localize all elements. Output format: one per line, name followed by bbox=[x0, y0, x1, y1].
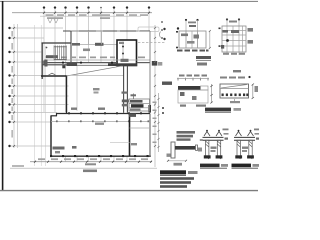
level board dark bbox=[152, 61, 157, 66]
border bottom bbox=[0, 190, 258, 192]
interior vertical x88 bbox=[88, 31, 90, 45]
detail B right text 2 bbox=[248, 40, 254, 44]
detail A left tick dots bbox=[176, 31, 178, 48]
stool E right dim marks bbox=[223, 129, 229, 131]
left axis dots bbox=[8, 27, 10, 147]
faint bottom-left dim text bbox=[12, 165, 24, 167]
detail D top diagonal bbox=[221, 85, 247, 89]
stair bottom rail bbox=[54, 58, 67, 60]
stool E foot 1 bbox=[204, 155, 211, 158]
detail A inner text 1 bbox=[181, 34, 188, 37]
notes line 2 bbox=[160, 181, 191, 184]
stool E foot 2 bbox=[216, 155, 223, 158]
core top marks bbox=[119, 42, 124, 44]
detail C right dim line bbox=[211, 84, 213, 103]
table text row 3 bbox=[130, 109, 141, 111]
detail A caption bbox=[196, 56, 211, 59]
border left bbox=[2, 1, 4, 190]
detail D dim row dot bbox=[248, 76, 250, 78]
table row line 1 bbox=[129, 103, 150, 105]
faint line left of partition bbox=[110, 142, 130, 144]
detail B inner verticals bbox=[233, 26, 243, 52]
stair hatch rails bbox=[53, 46, 55, 61]
detail C lower box bbox=[178, 90, 208, 103]
top wall column dots bbox=[68, 112, 142, 114]
detail C top dim ticks bbox=[178, 78, 208, 81]
detail B right text 1 bbox=[248, 28, 254, 32]
lower wing step horizontal bbox=[51, 115, 58, 117]
grid horizontals group bbox=[10, 28, 69, 146]
detail D bottom tick bbox=[234, 99, 236, 103]
detail B dark mark 1 bbox=[223, 30, 229, 33]
notes line 3 bbox=[160, 185, 187, 188]
grid line axis 3 bbox=[65, 9, 67, 112]
aux vertical c bbox=[44, 46, 46, 166]
flag leader text bbox=[198, 148, 202, 152]
right dim dots mid bbox=[162, 107, 164, 109]
stool F leg 2 bbox=[249, 140, 252, 156]
mid band tick dot 1 bbox=[62, 62, 64, 64]
core inner line bbox=[122, 42, 124, 60]
stair door dot 1 bbox=[46, 47, 48, 49]
detail B outer box bbox=[222, 26, 246, 52]
stool E caption bbox=[200, 164, 220, 168]
hall diagonal bbox=[67, 66, 123, 76]
flag vertical bar bbox=[171, 142, 175, 158]
stool E center text bbox=[211, 147, 217, 149]
mid band dark left bbox=[46, 62, 117, 64]
detail D mid line bbox=[220, 88, 249, 90]
bottom dim tick marks bbox=[34, 161, 152, 163]
grid line axis 6 bbox=[100, 9, 102, 62]
top dimension line 1 bbox=[12, 12, 152, 14]
bottom dimension line 2 bbox=[10, 167, 157, 169]
plan caption smudge bbox=[83, 170, 97, 173]
detail B dark mark 2 bbox=[231, 30, 239, 33]
bottom dimension line 1 bbox=[30, 161, 152, 163]
stool F foot 1 bbox=[235, 155, 242, 158]
detail A axis lines bbox=[185, 20, 187, 48]
bottom stub lines bbox=[65, 156, 67, 162]
walkway arrow mark bbox=[122, 92, 128, 94]
flag horizontal dark bar bbox=[175, 146, 196, 150]
mid band thin line bbox=[44, 59, 150, 61]
lower room text 1 bbox=[53, 147, 65, 150]
right dim vertical bbox=[154, 25, 156, 167]
room text smudge a bbox=[83, 49, 90, 52]
stair room east wall x71 bbox=[70, 31, 72, 66]
stool F right slab tick bbox=[256, 138, 259, 140]
detail D dim row bbox=[220, 77, 245, 79]
top dim row2 smudges bbox=[47, 17, 110, 19]
lower wing bottom wall bbox=[51, 155, 151, 157]
lower wing east wall bbox=[149, 114, 151, 157]
grid line axis 5 bbox=[88, 9, 90, 62]
detail A right dim bbox=[209, 31, 211, 48]
notes title underline bbox=[160, 175, 186, 177]
walkway text 2 bbox=[122, 104, 128, 107]
bottom dim text smudges bbox=[38, 158, 148, 160]
lower room text 5 bbox=[131, 143, 137, 145]
detail A axis dot 2 bbox=[196, 19, 198, 21]
detail A bottom dim row bbox=[177, 50, 209, 52]
grid line axis 9 bbox=[148, 9, 150, 31]
stool F slab lines bbox=[234, 136, 255, 138]
left wing west wall bbox=[41, 43, 43, 80]
left dim text smudges bbox=[11, 31, 13, 138]
stair hatch treads bbox=[56, 46, 66, 61]
detail C top dim line bbox=[177, 78, 209, 80]
left wing top wall bbox=[42, 42, 72, 44]
core dot 2 bbox=[122, 53, 124, 55]
stool F foot 2 bbox=[247, 155, 254, 158]
right inner dim text smudges bbox=[153, 102, 157, 144]
walkway wall west bbox=[123, 66, 125, 113]
lower wing west wall bbox=[50, 116, 52, 157]
flag end cap bbox=[196, 145, 198, 150]
table dark cell bbox=[131, 104, 144, 107]
right balcony dot 1 bbox=[163, 28, 165, 30]
bottom wall column dots bbox=[50, 155, 149, 157]
detail C bottom marks bbox=[180, 105, 186, 107]
stool F center text bbox=[242, 147, 248, 149]
detail B axis dot 2 bbox=[238, 18, 240, 20]
stool E peaks bbox=[204, 132, 210, 137]
lower room text 4 bbox=[95, 123, 104, 125]
stair top rail bbox=[54, 46, 67, 48]
stool E leg 2 hatch bbox=[217, 141, 220, 159]
top dim tick marks bbox=[43, 12, 150, 14]
east wall dark block bbox=[148, 105, 151, 113]
detail B axis dot 1 bbox=[226, 18, 228, 20]
detail A inner verticals bbox=[186, 31, 198, 48]
detail A top text bbox=[188, 22, 196, 24]
detail C right dim ticks bbox=[210, 85, 213, 104]
stool E leg 1 hatch bbox=[206, 141, 209, 159]
stool E apex dots bbox=[206, 130, 208, 132]
detail B left tick dots bbox=[219, 28, 221, 47]
table row line 2 bbox=[129, 107, 150, 109]
interior partition blob 2 bbox=[95, 43, 104, 46]
detail C bar light extension bbox=[201, 86, 209, 90]
table below text bbox=[129, 114, 136, 117]
band fuse over walkway head bbox=[108, 63, 137, 66]
walkway wall east bbox=[126, 66, 128, 113]
hall text smudge 2 bbox=[94, 92, 99, 94]
lower wing top wall bbox=[57, 113, 151, 115]
marks above lower wing wall bbox=[71, 108, 77, 110]
flag side text bbox=[167, 154, 171, 157]
right inner dim ticks bbox=[158, 98, 160, 148]
stool F leg 2 hatch bbox=[249, 141, 252, 159]
detail D right text bbox=[255, 86, 259, 92]
detail B dark mark 3 bbox=[221, 45, 224, 49]
mid band tick dot 3 bbox=[111, 62, 113, 64]
upper wing top wall dark segments bbox=[63, 30, 150, 32]
walkway text 1 bbox=[122, 100, 129, 103]
upper wing east wall bbox=[149, 31, 151, 113]
lower room text 2 bbox=[55, 151, 60, 153]
table box bbox=[129, 99, 150, 111]
detail B inner horizontals bbox=[222, 31, 246, 47]
lower room text 3 bbox=[72, 146, 77, 149]
detail A box bbox=[179, 31, 206, 48]
detail B center dot bbox=[226, 39, 229, 42]
detail A inner text 2 bbox=[194, 35, 200, 39]
detail D caption bbox=[205, 108, 231, 112]
right column dots small bbox=[161, 21, 163, 39]
hall corner blob bbox=[62, 65, 65, 68]
hall eave line bbox=[67, 74, 124, 76]
detail B bottom dim row bbox=[223, 53, 245, 55]
right paren mark bbox=[160, 32, 161, 38]
flag text block bbox=[177, 131, 196, 141]
detail C inner mark 2 bbox=[192, 96, 197, 100]
grid line axis 1 bbox=[43, 9, 45, 112]
detail A axis dot 1 bbox=[185, 19, 187, 21]
detail C dark bar bbox=[178, 86, 201, 90]
right dim ticks on x155 bbox=[154, 27, 156, 147]
partition side line bbox=[130, 127, 151, 129]
detail C inner mark 1 bbox=[180, 92, 185, 96]
stool E right slab tick bbox=[225, 138, 229, 140]
level board light bbox=[158, 62, 163, 66]
left dim line 1 bbox=[13, 24, 15, 148]
stool F caption dark bbox=[232, 164, 252, 168]
core bottom blob bbox=[121, 59, 129, 62]
level mark blob bbox=[67, 62, 78, 66]
mid band dark right bbox=[137, 62, 151, 64]
mid band tick dot 2 bbox=[80, 62, 82, 64]
table text row 1 bbox=[130, 100, 143, 103]
stool E leg 1 bbox=[206, 140, 209, 156]
stair door dot 2 bbox=[46, 56, 48, 58]
top dim text smudges bbox=[46, 14, 149, 16]
detail D main rect bbox=[220, 84, 249, 98]
notes line 1 bbox=[160, 177, 194, 180]
lower wing step vertical bbox=[56, 113, 58, 116]
stool E slab lines bbox=[203, 136, 224, 138]
interior wall y44 bbox=[71, 44, 117, 46]
mid band text smudge row bbox=[45, 55, 59, 66]
detail D bottom text bbox=[230, 101, 240, 103]
core shaft rect bbox=[117, 40, 137, 66]
door arrow mark bbox=[49, 73, 56, 75]
entrance door blob bbox=[43, 61, 47, 65]
stool E leg 2 bbox=[217, 140, 220, 156]
detail D rebar dash row bbox=[222, 94, 249, 97]
stool F leg 1 bbox=[237, 140, 240, 156]
interior vertical x101 bbox=[101, 31, 103, 45]
detail D right dim bbox=[252, 84, 254, 98]
top axis dots bbox=[43, 6, 150, 8]
right inner dim vertical bbox=[158, 93, 160, 152]
right balcony dot 2 bbox=[163, 38, 165, 40]
detail D top small text bbox=[233, 70, 241, 72]
grid line axis 8 bbox=[126, 9, 128, 40]
grid verticals group bbox=[14, 9, 149, 166]
stair room south wall bbox=[42, 64, 76, 66]
detail B axis lines bbox=[226, 20, 228, 56]
detail C left label bbox=[162, 82, 172, 85]
detail B top text bbox=[229, 21, 237, 23]
stool F apex dots bbox=[238, 130, 240, 132]
interior corridor line y121.5 bbox=[51, 121, 150, 123]
flag bottom dim line bbox=[168, 160, 186, 162]
stool F leg 1 hatch bbox=[237, 141, 240, 159]
notch wall horizontal y78 bbox=[41, 75, 67, 77]
bottom overall dim text bbox=[85, 163, 96, 165]
grid line axis 7 bbox=[113, 9, 115, 62]
dashed line right of plan bbox=[138, 42, 166, 44]
hall west wall x68.5 bbox=[66, 75, 68, 114]
grid line axis 2 bbox=[54, 9, 56, 112]
corridor tick dots bbox=[56, 120, 149, 122]
border top bbox=[0, 0, 258, 2]
flag bottom text bbox=[174, 163, 183, 166]
left dim tick marks bbox=[13, 27, 15, 147]
notes title scale bbox=[188, 171, 198, 174]
aux vertical a bbox=[34, 25, 36, 166]
parapet bump top right bbox=[138, 27, 159, 32]
lower wing partition wall bbox=[129, 114, 131, 157]
top dimension line 2 bbox=[40, 15, 141, 17]
hall text smudge 1 bbox=[93, 88, 100, 90]
far dot top bbox=[177, 27, 179, 29]
stool E left tick bbox=[200, 139, 203, 141]
left dim line 2 bbox=[17, 24, 19, 148]
detail C top dim text row bbox=[179, 75, 207, 77]
core dot 1 bbox=[122, 46, 124, 48]
detail A inner text 3 bbox=[187, 41, 195, 44]
interior partition blob 1 bbox=[72, 43, 80, 46]
aux vertical b bbox=[40, 25, 42, 166]
stool F right dim marks bbox=[254, 129, 259, 131]
stool F peaks bbox=[236, 132, 242, 137]
notes title bbox=[160, 170, 186, 174]
upper wing top wall base bbox=[63, 30, 150, 32]
table top tick bbox=[133, 94, 135, 100]
window marks above plan bbox=[48, 19, 58, 23]
grid line axis 4 bbox=[76, 9, 78, 111]
